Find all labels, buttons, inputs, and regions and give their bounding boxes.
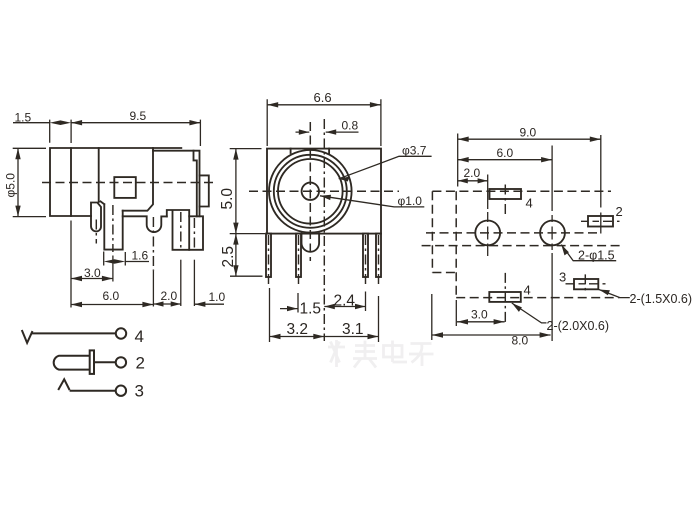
svg-text:2: 2 bbox=[136, 354, 145, 373]
leader 2-(1.5X0.6) bbox=[599, 290, 692, 307]
dimension 1.5 (front bottom) bbox=[280, 293, 321, 318]
hole phi1.5 #2 bbox=[540, 221, 565, 246]
svg-text:5.0: 5.0 bbox=[219, 188, 236, 210]
schematic pin 2 barrel bbox=[54, 350, 117, 374]
dimension phi5.0 (side left) bbox=[4, 148, 47, 216]
dimension 3.0 (layout) bbox=[456, 300, 504, 326]
svg-text:2-(1.5X0.6): 2-(1.5X0.6) bbox=[630, 292, 693, 306]
schematic pin 2 terminal bbox=[116, 357, 126, 367]
svg-text:0.8: 0.8 bbox=[342, 119, 359, 133]
leader 2-(2.0X0.6) bbox=[512, 303, 609, 333]
svg-text:2-(2.0X0.6): 2-(2.0X0.6) bbox=[547, 319, 610, 333]
dimension 3.0 (side) bbox=[71, 266, 113, 281]
side view body outline bbox=[50, 148, 200, 216]
side view anchor square bbox=[114, 177, 136, 198]
slot pad 2 bbox=[581, 204, 623, 227]
dimension 6.0 (side) bbox=[71, 289, 153, 307]
svg-text:9.0: 9.0 bbox=[520, 126, 537, 140]
label phi3.7 with leader bbox=[339, 144, 432, 182]
dimension 6.6 (front top) bbox=[267, 90, 381, 146]
svg-text:1.5: 1.5 bbox=[300, 301, 322, 318]
layout horizontal centerline through holes bbox=[426, 232, 601, 234]
svg-text:2.5: 2.5 bbox=[220, 246, 237, 268]
side view U-shaped leg bbox=[123, 216, 167, 232]
svg-text:3.2: 3.2 bbox=[287, 321, 309, 338]
top slot pad 4 bbox=[490, 185, 533, 216]
svg-text:6.0: 6.0 bbox=[497, 146, 514, 160]
side view right shaft protrusion bbox=[200, 175, 209, 206]
dimension 2.0 (layout) bbox=[458, 166, 488, 256]
svg-text:1.0: 1.0 bbox=[209, 290, 226, 304]
dimension 5.0 (front left) bbox=[219, 149, 265, 234]
svg-text:φ3.7: φ3.7 bbox=[402, 144, 427, 158]
watermark bbox=[328, 340, 434, 368]
front view legs bbox=[266, 234, 381, 277]
svg-text:3: 3 bbox=[559, 270, 566, 285]
svg-text:3.0: 3.0 bbox=[471, 308, 488, 322]
dimension 0.8 (front) bbox=[296, 119, 359, 135]
front view body square bbox=[267, 149, 381, 234]
schematic pin 3 terminal bbox=[116, 386, 126, 396]
hole phi1.5 #1 bbox=[475, 221, 500, 246]
side view horizontal centerline bbox=[42, 182, 216, 184]
side view front pin (1.6 wide) bbox=[101, 201, 123, 249]
leader 2-phi1.5 bbox=[561, 245, 616, 263]
dimension 1.6 (side) bbox=[104, 249, 149, 266]
side view pin centerlines bbox=[71, 205, 194, 308]
dimension 3.1 (front bottom) bbox=[324, 296, 378, 342]
label phi1.0 with leader bbox=[320, 194, 424, 208]
layout lower horizontal dashed line bbox=[422, 245, 620, 247]
dimension 6.0 (layout) bbox=[458, 146, 552, 342]
dimension 9.5 (side top) bbox=[71, 109, 200, 146]
dimension 9.0 (layout) bbox=[458, 126, 601, 234]
dimension 2.0 (side) bbox=[153, 289, 180, 307]
dimension 8.0 (layout) bbox=[432, 294, 551, 348]
front view top ticks bbox=[291, 149, 330, 154]
front view center pin U bbox=[302, 234, 320, 252]
schematic pin 4 contact bbox=[22, 330, 116, 343]
layout dashed outline bbox=[432, 191, 619, 297]
schematic pin 3 contact bbox=[58, 379, 116, 391]
side view mounting tab (rounded) bbox=[91, 203, 101, 232]
svg-text:4: 4 bbox=[135, 327, 144, 346]
front view leg centerlines bbox=[269, 235, 379, 285]
svg-text:3: 3 bbox=[135, 382, 144, 401]
svg-text:2.0: 2.0 bbox=[161, 289, 178, 303]
front view crosshair centerlines bbox=[249, 190, 399, 192]
svg-text:φ5.0: φ5.0 bbox=[4, 173, 18, 198]
svg-text:2: 2 bbox=[616, 204, 623, 219]
front view circles bbox=[269, 150, 352, 233]
side view rear pins bbox=[167, 210, 203, 250]
dimension 2.4 (front bottom) bbox=[324, 292, 365, 312]
svg-text:3.1: 3.1 bbox=[342, 321, 364, 338]
svg-text:6.0: 6.0 bbox=[103, 289, 120, 303]
dimension 1.0 (side) bbox=[194, 290, 225, 307]
svg-text:4: 4 bbox=[524, 283, 531, 298]
dimension 1.5 (side top) bbox=[13, 111, 71, 144]
svg-text:2.0: 2.0 bbox=[464, 166, 481, 180]
svg-text:4: 4 bbox=[526, 196, 533, 211]
dimension 2.5 (front left) bbox=[220, 234, 263, 277]
svg-text:6.6: 6.6 bbox=[314, 90, 332, 105]
schematic pin 4 terminal bbox=[116, 328, 126, 338]
svg-text:9.5: 9.5 bbox=[130, 109, 147, 123]
svg-text:φ1.0: φ1.0 bbox=[398, 194, 423, 208]
svg-text:1.6: 1.6 bbox=[132, 249, 149, 263]
dimension 3.2 (front bottom) bbox=[270, 288, 325, 342]
slot pad 3 bbox=[559, 270, 606, 293]
bottom slot pad 4 bbox=[489, 273, 530, 325]
